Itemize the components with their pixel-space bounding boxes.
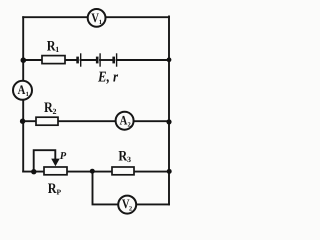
svg-text:2: 2: [129, 205, 132, 212]
svg-text:2: 2: [128, 122, 131, 129]
svg-text:1: 1: [99, 19, 102, 26]
svg-text:A: A: [18, 82, 26, 97]
svg-text:1: 1: [26, 91, 29, 98]
svg-text:E, r: E, r: [97, 70, 118, 86]
svg-text:1: 1: [55, 45, 59, 54]
svg-text:P: P: [60, 151, 67, 162]
svg-text:3: 3: [127, 155, 131, 164]
svg-text:2: 2: [53, 107, 57, 116]
svg-text:P: P: [57, 187, 62, 196]
